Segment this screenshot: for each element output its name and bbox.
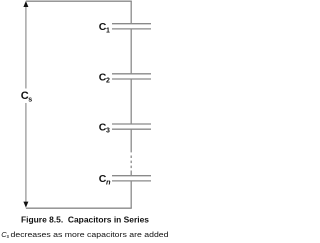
measurement arrow Cs — [23, 1, 28, 208]
svg-text:Figure 8.5. Capacitors in Ser: Figure 8.5. Capacitors in Series — [21, 216, 150, 225]
svg-text:n: n — [106, 177, 111, 186]
capacitor C2 — [112, 74, 151, 79]
wire top — [26, 0, 132, 2]
wire segment C3 to dots — [130, 129, 132, 152]
svg-text:2: 2 — [106, 77, 110, 84]
label C2 — [99, 71, 110, 84]
label C1 — [99, 21, 110, 34]
svg-text:s: s — [7, 234, 10, 240]
wire segment dots to Cn — [130, 171, 132, 176]
capacitor Cn — [112, 176, 151, 181]
label Cs — [21, 90, 32, 103]
caption subtitle — [1, 230, 168, 240]
wire bottom — [26, 207, 132, 209]
svg-text:3: 3 — [106, 128, 110, 135]
wire segment Cn to bottom — [130, 181, 132, 208]
wire right segment top to C1 — [130, 1, 132, 24]
wire segment C2 to C3 — [130, 79, 132, 124]
label C3 — [99, 122, 110, 135]
svg-text:1: 1 — [106, 27, 110, 34]
capacitor C1 — [112, 24, 151, 29]
label Cn — [99, 173, 111, 186]
dotted wire continuation — [130, 156, 132, 169]
capacitor C3 — [112, 124, 151, 129]
wire segment C1 to C2 — [130, 29, 132, 74]
svg-text:decreases as more capacitors a: decreases as more capacitors are added — [11, 232, 169, 239]
svg-text:s: s — [28, 96, 32, 103]
